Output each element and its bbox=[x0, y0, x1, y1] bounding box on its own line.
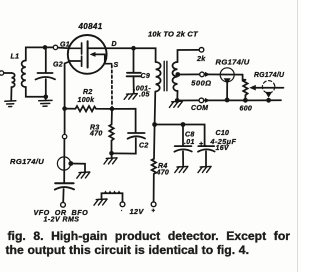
wire input to T1 primary bbox=[4, 72, 12, 74]
node rail/C8 junction bbox=[181, 122, 186, 127]
svg-text:.01: .01 bbox=[184, 139, 195, 146]
wire 500 terminal to coax bbox=[204, 73, 242, 75]
wire coax1 shield to rail bbox=[226, 83, 228, 100]
ground (chassis) under C9 bbox=[124, 94, 137, 100]
inductor L1 (secondary) bbox=[22, 61, 26, 87]
ground (3-bar) under C1 bbox=[39, 100, 52, 106]
svg-text:.05: .05 bbox=[139, 92, 150, 99]
svg-text:12V: 12V bbox=[130, 207, 145, 216]
transistor Q1 40841 body bbox=[68, 35, 107, 74]
coax RG174/U (VFO lead) bbox=[57, 157, 70, 170]
wire wiper line bbox=[255, 87, 283, 89]
wire 12V neg bracket bbox=[102, 193, 123, 202]
svg-text:1-2V RMS: 1-2V RMS bbox=[44, 217, 80, 224]
wire G2 lead bbox=[65, 62, 70, 135]
svg-text:C9: C9 bbox=[141, 73, 151, 80]
node T2 mid tap bbox=[175, 72, 180, 77]
node coax1 shield on rail bbox=[225, 98, 230, 103]
node L1 top junction bbox=[43, 45, 48, 50]
capacitor C9 bbox=[127, 50, 141, 94]
wire drain bbox=[89, 48, 156, 62]
ground (chassis) under C8 bbox=[175, 166, 188, 172]
node G2/R2 junction bbox=[62, 106, 67, 111]
svg-text:C2: C2 bbox=[139, 143, 149, 150]
capacitor C8 bbox=[174, 125, 191, 167]
arrow mark after 500 terminal bbox=[205, 72, 210, 77]
capacitor C10 bbox=[198, 146, 215, 167]
node +12V terminal bbox=[151, 202, 156, 207]
svg-text:RG174/U: RG174/U bbox=[216, 58, 250, 67]
node G2 coax terminal bbox=[62, 134, 66, 138]
arrow coax1 shield down bbox=[224, 78, 231, 84]
node 600 bottom on rail bbox=[243, 98, 248, 103]
wire junction to G1 terminal bbox=[45, 46, 53, 48]
transformer T2 core bbox=[164, 61, 167, 91]
svg-text:100k: 100k bbox=[78, 97, 96, 104]
resistor R3 470 bbox=[109, 109, 113, 152]
wire T2 primary bottom to rail bbox=[154, 92, 157, 125]
svg-text:40841: 40841 bbox=[78, 22, 103, 31]
ground (chassis) under C10 bbox=[198, 166, 211, 172]
wire junction to ground bbox=[45, 97, 47, 101]
node VFO terminal bbox=[61, 202, 66, 207]
svg-text:COM: COM bbox=[191, 105, 208, 112]
svg-text:16V: 16V bbox=[216, 145, 230, 152]
coax RG174/U (500 ohm line) bbox=[220, 68, 234, 82]
svg-text:500Ω: 500Ω bbox=[191, 79, 211, 88]
node R2/R3/S junction bbox=[110, 107, 115, 112]
transistor Q1 internals bbox=[69, 41, 112, 67]
node coax shield dot bbox=[68, 161, 73, 166]
ground (chassis) under R3 bbox=[104, 158, 117, 164]
node 2k terminal bbox=[199, 48, 204, 53]
node G1 terminal bbox=[53, 45, 57, 49]
node 500 terminal bbox=[200, 72, 205, 77]
capacitor C1 (tuning, across L1) bbox=[36, 49, 56, 95]
capacitor C2 bbox=[114, 133, 146, 154]
wire coax1 through to 600 pot bbox=[243, 75, 246, 80]
node COM terminal bbox=[199, 98, 204, 103]
transformer T2 secondary bbox=[173, 62, 178, 91]
svg-text:G1: G1 bbox=[60, 41, 70, 48]
svg-text:2k: 2k bbox=[196, 54, 206, 63]
svg-text:D: D bbox=[112, 41, 117, 48]
svg-text:G2: G2 bbox=[53, 61, 63, 68]
svg-text:RG174/U: RG174/U bbox=[10, 157, 44, 166]
ground (chassis) T2 bottom bbox=[169, 101, 182, 107]
wire R3 junction to ground bbox=[111, 153, 113, 158]
arrow wiper pointing at 600 bbox=[249, 85, 256, 91]
svg-text:+: + bbox=[151, 208, 155, 215]
arrow mark after COM terminal bbox=[205, 98, 210, 103]
node T2 bottom junction bbox=[175, 98, 180, 103]
wire T2 secondary top to 2k terminal bbox=[178, 50, 200, 62]
transformer T2 primary bbox=[156, 62, 161, 92]
capacitor (VFO blocking) bbox=[55, 183, 74, 202]
svg-text:·: · bbox=[121, 209, 123, 215]
svg-text:C8: C8 bbox=[185, 132, 195, 139]
node rail/R4 junction bbox=[152, 122, 157, 127]
wire coax shield to ground bbox=[71, 164, 85, 172]
svg-text:R2: R2 bbox=[83, 89, 93, 96]
svg-text:L1: L1 bbox=[11, 53, 20, 60]
page rule (faint scan line at right) bbox=[297, 0, 299, 272]
resistor R2 100k bbox=[65, 106, 112, 111]
svg-text:10k TO 2k CT: 10k TO 2k CT bbox=[148, 29, 199, 38]
inductor T1 primary bbox=[12, 73, 15, 87]
wire tap to 500 terminal bbox=[178, 73, 200, 75]
node R3/C2 bottom junction bbox=[109, 151, 114, 156]
svg-text:fig. 8. High-gain product dete: fig. 8. High-gain product detector. Exce… bbox=[8, 229, 291, 243]
svg-text:+: + bbox=[199, 141, 203, 148]
wire L1 top bbox=[26, 47, 43, 60]
svg-text:600: 600 bbox=[240, 105, 253, 112]
svg-text:S: S bbox=[114, 62, 119, 69]
resistor 600 (pot) bbox=[243, 80, 247, 98]
wire junction to C2 top bbox=[112, 109, 136, 133]
svg-text:the output this circuit is ide: the output this circuit is identical to … bbox=[6, 243, 249, 257]
svg-text:470: 470 bbox=[89, 131, 103, 138]
coax RG174/U (output, dashed) bbox=[262, 81, 274, 93]
wire supply rail bbox=[155, 125, 205, 146]
wire COM rail right bbox=[204, 99, 281, 101]
svg-text:RG174/U: RG174/U bbox=[254, 72, 285, 79]
svg-text:C10: C10 bbox=[216, 130, 230, 137]
node drain/C9 junction bbox=[131, 46, 136, 51]
ground (chassis) 12V neg bbox=[94, 199, 107, 205]
arrow coax2 shield down bbox=[265, 92, 272, 98]
ground (3-bar) under T1 primary bbox=[5, 101, 16, 107]
wire L1 bottom bbox=[26, 87, 44, 97]
node coax2 shield on rail bbox=[266, 98, 271, 103]
node 12V neg terminal bbox=[120, 202, 125, 207]
svg-text:470: 470 bbox=[156, 170, 170, 177]
wire G1 terminal to MOSFET bbox=[58, 47, 69, 50]
bracket ticks bbox=[105, 192, 121, 194]
wire COM rail bbox=[177, 99, 199, 101]
ground (chassis) coax shield bbox=[77, 172, 90, 178]
resistor R4 470 bbox=[152, 125, 156, 202]
node L1 bottom junction bbox=[44, 95, 49, 100]
wire coax center conductor bbox=[63, 139, 65, 183]
wire T1 primary to ground bbox=[10, 87, 12, 101]
wire T2 secondary bottom bbox=[176, 91, 178, 101]
wire S lead (dashed) bbox=[111, 65, 113, 107]
input terminal J1 bbox=[0, 71, 4, 75]
